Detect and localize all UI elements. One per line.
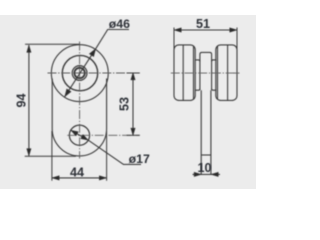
dim 51 extension right xyxy=(236,28,238,51)
svg-text:44: 44 xyxy=(70,166,84,180)
dim o46 arrow lower-left xyxy=(65,89,71,97)
dim o46 arrow upper-right xyxy=(89,49,95,57)
dim 10 arrow left (outside) xyxy=(194,172,201,176)
side view left tire xyxy=(174,45,195,101)
dim 53 extension top (solid over center line) xyxy=(127,72,140,74)
center line horizontal small circle xyxy=(67,134,139,136)
big wheel circle o46 xyxy=(51,45,108,102)
dim 51 arrow right xyxy=(230,28,237,32)
dim 94 arrow top xyxy=(27,45,31,52)
dim o17 arrow lower-right xyxy=(81,134,89,140)
side view bracket xyxy=(200,52,212,90)
dim o17 diameter line + leader xyxy=(71,130,141,164)
dim 10 arrow right (outside) xyxy=(211,172,218,176)
dim 94 arrow bottom xyxy=(27,149,31,156)
dim 51 line xyxy=(174,29,237,31)
dim 53 line xyxy=(132,73,134,136)
side view left hub step xyxy=(195,60,200,90)
dim o17 arrow upper-left xyxy=(71,130,79,136)
svg-text:53: 53 xyxy=(118,97,132,111)
side view right tire face line xyxy=(217,46,219,100)
side view stem inner line xyxy=(201,154,211,156)
center line horizontal big circle xyxy=(48,72,140,74)
dim 94 extension top xyxy=(25,43,80,45)
dim 53 arrow top xyxy=(131,73,135,80)
dim 44 arrow left xyxy=(52,176,59,180)
dim 51 extension left xyxy=(173,28,175,51)
small circle o17 xyxy=(69,125,89,145)
dim 94 line xyxy=(28,45,30,156)
side view center line xyxy=(171,72,240,74)
dim 53 extension bottom (solid over center line) xyxy=(127,134,140,136)
center line vertical front view xyxy=(79,42,81,159)
side view right tire xyxy=(216,45,237,101)
dim 44 line xyxy=(52,177,107,179)
svg-text:ø46: ø46 xyxy=(109,17,130,31)
side view right hub step xyxy=(212,60,217,90)
svg-text:10: 10 xyxy=(197,161,211,175)
middle circle xyxy=(62,55,97,90)
dim 94 extension bottom xyxy=(25,155,76,157)
svg-text:ø17: ø17 xyxy=(129,152,150,166)
side center line solid tail xyxy=(234,72,240,74)
dim o46 diameter line xyxy=(65,30,129,97)
side view left tire groove line xyxy=(182,45,184,100)
dim 10 line xyxy=(193,173,221,175)
dim 51 arrow left xyxy=(174,28,181,32)
side view right tire groove line xyxy=(227,45,229,100)
dim 44 arrow right xyxy=(99,176,106,180)
side view left tire face line xyxy=(193,46,195,100)
side view stem xyxy=(201,90,211,174)
svg-text:94: 94 xyxy=(14,93,28,107)
hub outer ring xyxy=(72,66,87,81)
gray drawing band xyxy=(0,15,256,189)
hub inner ring xyxy=(74,68,84,78)
dim 53 arrow bottom xyxy=(131,128,135,135)
svg-text:51: 51 xyxy=(196,17,210,31)
dim 44 extension right xyxy=(106,131,108,181)
front view body outline xyxy=(52,79,106,156)
dim 44 extension left xyxy=(51,131,53,181)
